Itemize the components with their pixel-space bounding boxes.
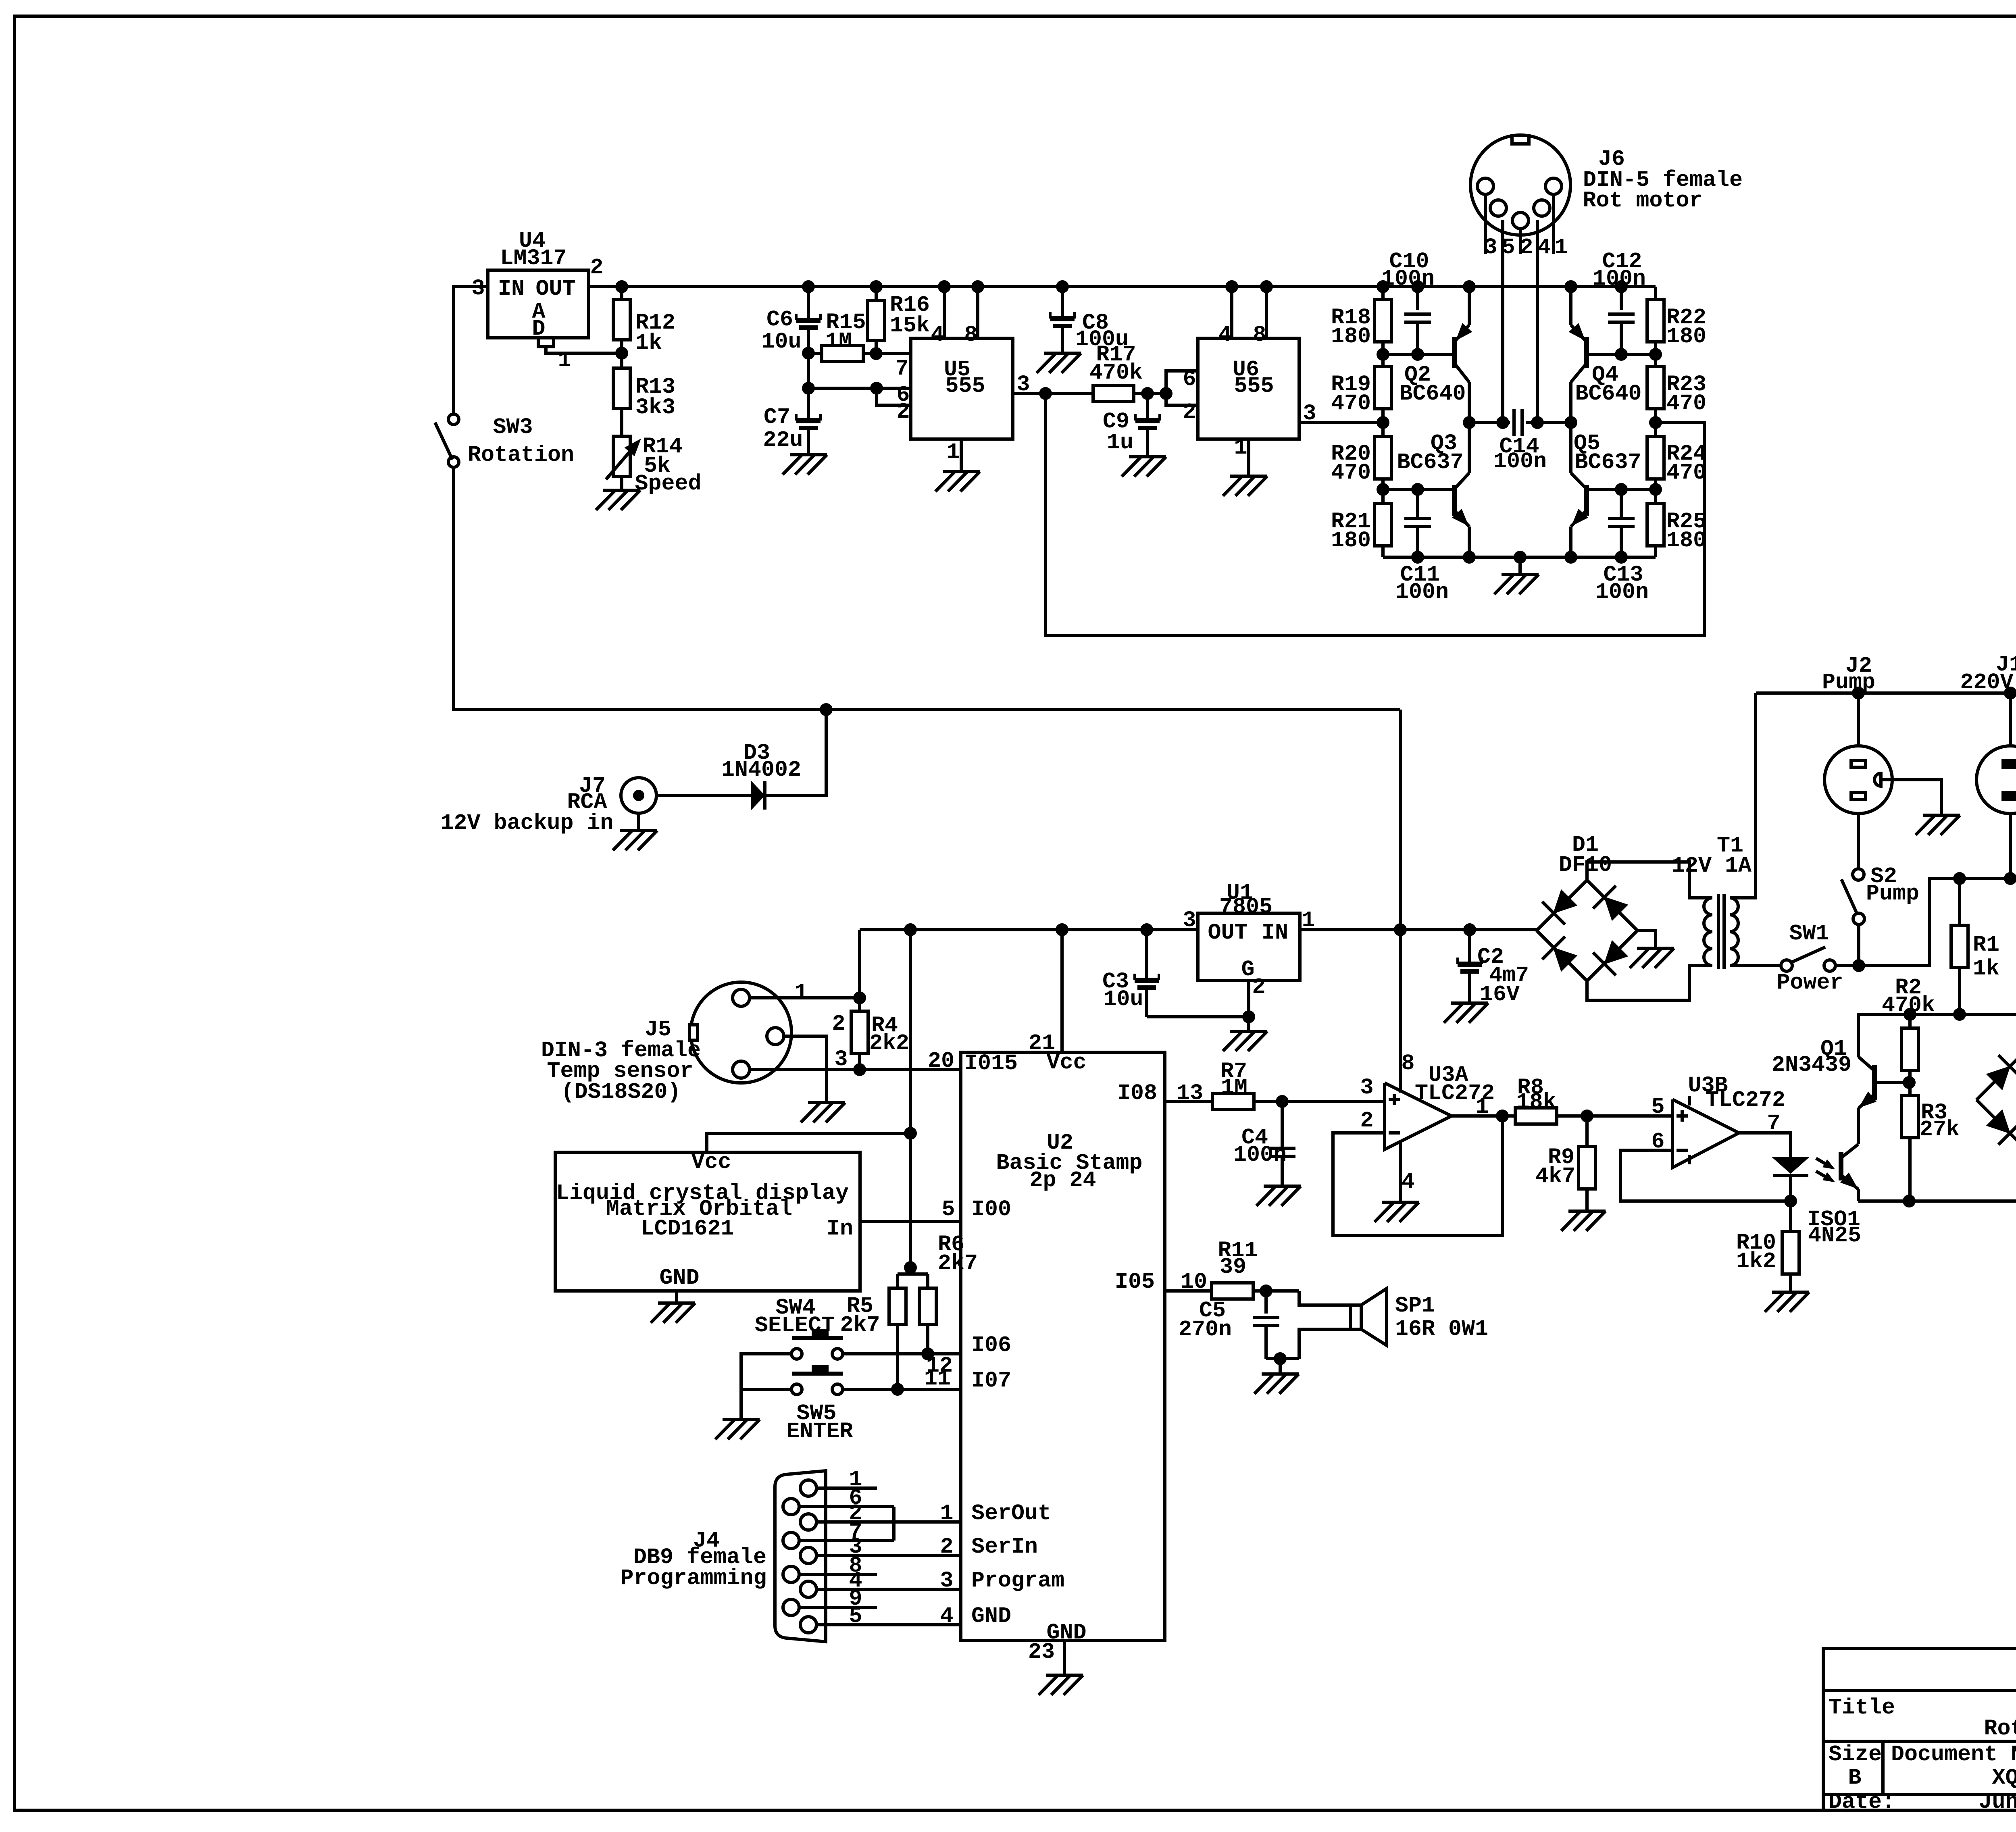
svg-text:2p 24: 2p 24: [1029, 1168, 1096, 1193]
svg-text:GND: GND: [659, 1265, 699, 1291]
node IN/U3 pin8 column: [1394, 923, 1407, 936]
wire U2 IO5 to R11: [1165, 1289, 1212, 1293]
svg-text:180: 180: [1331, 528, 1371, 553]
resistor R23 470: [1654, 354, 1657, 366]
U2 Vcc pin21 wire: [1060, 930, 1064, 1052]
J6 pin 1 stub: [1552, 194, 1555, 254]
svg-text:2: 2: [1252, 974, 1265, 1000]
U6 pin 8 wire: [1265, 287, 1268, 338]
svg-text:Speed: Speed: [635, 471, 701, 496]
J4 pin 4 wire Program: [816, 1588, 961, 1591]
connector J4 DB9 female Programming: [775, 1471, 826, 1642]
ground below H-bridge: [1502, 573, 1539, 576]
capacitor C9 1u: [1146, 393, 1149, 418]
resistor R4 2k2: [858, 998, 861, 1011]
U3A pin2 feedback loop: [1333, 1116, 1502, 1235]
U6 pin 4 wire: [1230, 287, 1233, 338]
svg-text:3: 3: [1360, 1075, 1373, 1100]
svg-text:4N25: 4N25: [1808, 1223, 1861, 1248]
node R8/R9: [1581, 1110, 1593, 1122]
capacitor C7 22u: [807, 388, 810, 418]
node R5/R6 top: [904, 1261, 917, 1274]
svg-text:27k: 27k: [1920, 1117, 1960, 1142]
node R19/R20 drive A: [1377, 416, 1389, 429]
svg-text:1M: 1M: [825, 329, 852, 354]
svg-text:June 16, 2003: June 16, 2003: [1979, 1789, 2016, 1815]
svg-text:(DS18S20): (DS18S20): [561, 1079, 681, 1105]
bridge rectifier D1 DF10: [1537, 880, 1637, 981]
J4 pin 9 stub: [799, 1606, 877, 1609]
wire SW4 to U2 IO6 pin12: [843, 1352, 961, 1355]
svg-text:3: 3: [1303, 401, 1316, 426]
svg-text:Vcc: Vcc: [691, 1149, 731, 1175]
wire Vcc rail end down to R4: [858, 930, 861, 998]
svg-text:4: 4: [931, 322, 944, 348]
ground at J5 pin2: [808, 1101, 845, 1104]
node A left motor terminal: [1463, 416, 1476, 429]
wire D2 bottom rail to ISO1 emitter: [1858, 1199, 2016, 1203]
connector J6 DIN-5 female Rot motor: [1470, 135, 1570, 235]
capacitor C6 10u: [807, 287, 810, 318]
node R12/R13/U4-ADJ: [615, 347, 628, 360]
J6 pin 3 stub: [1484, 194, 1487, 254]
node U3A output: [1496, 1110, 1509, 1122]
R5/R6 top bracket: [909, 1268, 912, 1274]
220V top rail: [1756, 691, 2016, 695]
resistor R19 470: [1381, 354, 1385, 366]
wire Q2 collector to node A: [1468, 382, 1471, 423]
svg-text:SW3: SW3: [493, 414, 533, 440]
capacitor C13 100n: [1620, 489, 1623, 518]
ground below R10: [1772, 1291, 1809, 1294]
wire SW4 left to ground column: [741, 1354, 791, 1420]
svg-text:1: 1: [794, 980, 808, 1005]
svg-text:8: 8: [1253, 322, 1266, 348]
wire Q2 emitter column: [1468, 287, 1471, 325]
capacitor C10 100n: [1416, 287, 1419, 310]
svg-text:3k3: 3k3: [635, 395, 675, 420]
J4 pin6-pin7 tie: [892, 1507, 896, 1541]
diode D3 1N4002: [656, 794, 751, 797]
ground below U5 pin1: [943, 470, 980, 473]
wire Q3 collector column: [1468, 423, 1471, 473]
ground below R9: [1568, 1210, 1606, 1213]
wire J5 pin3 to U2 IO15 pin20: [750, 1068, 961, 1071]
svg-text:GND: GND: [971, 1603, 1011, 1629]
transistor Q2 BC640: [1383, 353, 1452, 356]
svg-text:3: 3: [1484, 235, 1497, 260]
wire to U5 pin 7: [876, 352, 911, 355]
timer U6 555: [1198, 338, 1299, 439]
node C7/pin6 net: [802, 382, 815, 395]
svg-text:Power: Power: [1776, 970, 1843, 995]
ground below C8: [1044, 352, 1081, 355]
node LED cathode/R10: [1784, 1195, 1797, 1207]
U3A pin 4 wire to ground: [1399, 1141, 1402, 1202]
svg-text:470: 470: [1331, 460, 1371, 485]
wire C9 node to U6 pin6/2 tie: [1148, 392, 1166, 395]
node R1 bottom: [1953, 1008, 1966, 1021]
svg-text:23: 23: [1028, 1639, 1055, 1665]
node R23/R24 drive B: [1649, 416, 1662, 429]
node R18/R19/Q2 base: [1377, 348, 1389, 361]
svg-text:22u: 22u: [763, 427, 803, 453]
svg-text:180: 180: [1331, 324, 1371, 349]
ground below C7: [790, 453, 827, 456]
svg-text:3: 3: [940, 1568, 953, 1593]
svg-text:I07: I07: [971, 1368, 1011, 1393]
svg-text:15k: 15k: [890, 313, 930, 338]
resistor R15 1M: [808, 352, 822, 355]
svg-text:8: 8: [1401, 1051, 1414, 1076]
svg-text:Title: Title: [1829, 1695, 1895, 1720]
wire Vcc rail from U1 OUT: [860, 928, 1198, 931]
node U6 pin6/pin2 tie: [1160, 387, 1173, 400]
resistor R9 4k7: [1585, 1116, 1589, 1147]
capacitor C8 100u: [1061, 287, 1064, 316]
svg-text:180: 180: [1666, 324, 1706, 349]
svg-text:SerIn: SerIn: [971, 1534, 1038, 1559]
wire Q5 collector column: [1569, 423, 1572, 473]
node U5 pin6/pin2 tie: [870, 382, 883, 395]
svg-text:In: In: [827, 1216, 853, 1241]
wire C6 to C7: [807, 353, 810, 388]
resistor R17 470k: [1045, 392, 1093, 395]
U5 pin 3 output wire: [1013, 392, 1045, 395]
switch SW1 Power: [1781, 960, 1792, 971]
ground below C5: [1262, 1372, 1299, 1376]
transistor Q3 BC637: [1383, 488, 1452, 491]
U2 GND pin23 wire: [1063, 1640, 1066, 1675]
wire C7 node to U5 pin6: [808, 387, 911, 390]
title block: [1823, 1649, 2016, 1810]
resistor R24 470: [1654, 423, 1657, 437]
J4 pin 6 wire: [799, 1505, 894, 1508]
wire SW5 to U2 IO7 pin11: [843, 1388, 961, 1391]
wire Q4 emitter column: [1569, 287, 1572, 325]
capacitor C4 100n: [1281, 1101, 1284, 1148]
wire U4 pin1 to R12/R13 junction: [546, 347, 622, 353]
node C12/Q4 base: [1615, 348, 1628, 361]
U5 pin 8 wire: [976, 287, 979, 338]
wire ISO1 emitter down: [1857, 1189, 1860, 1201]
node R3 bottom: [1903, 1195, 1916, 1207]
svg-text:4: 4: [1537, 235, 1551, 260]
svg-text:470: 470: [1331, 391, 1371, 416]
J4 pin 1 stub: [816, 1486, 877, 1490]
svg-text:1: 1: [1554, 235, 1568, 260]
svg-text:Date:: Date:: [1829, 1789, 1895, 1815]
svg-text:10: 10: [1181, 1269, 1207, 1295]
node B right motor terminal: [1564, 416, 1577, 429]
wire J2 bottom to S2: [1857, 814, 1860, 869]
svg-text:BC637: BC637: [1574, 450, 1641, 475]
svg-text:I06: I06: [971, 1332, 1011, 1358]
svg-text:100n: 100n: [1593, 266, 1646, 291]
svg-text:470k: 470k: [1882, 993, 1935, 1018]
wire S2 to SW1 node: [1857, 924, 1860, 966]
node R2 top: [1904, 1008, 1916, 1021]
transistor Q1 2N3439: [1872, 1065, 1877, 1100]
node R4 top/J5 pin1: [853, 991, 866, 1004]
transformer T1 12V 1A: [1704, 898, 1712, 915]
svg-text:4: 4: [1401, 1169, 1414, 1195]
resistor R1 1k: [1958, 879, 1961, 925]
svg-text:470: 470: [1666, 460, 1706, 485]
svg-text:1M: 1M: [1221, 1075, 1248, 1100]
ground below U2: [1046, 1674, 1083, 1677]
capacitor C12 100n: [1620, 287, 1623, 310]
capacitor C14 100n: [1469, 421, 1510, 424]
wire SW1 to S2 junction: [1835, 964, 1859, 967]
svg-text:270n: 270n: [1179, 1317, 1232, 1342]
svg-text:Vcc: Vcc: [1046, 1050, 1086, 1075]
svg-text:I05: I05: [1115, 1269, 1155, 1295]
svg-text:4: 4: [1218, 322, 1231, 348]
regulator U4 LM317: [488, 270, 589, 338]
wire J1 bottom live: [2009, 814, 2012, 879]
svg-text:SP1: SP1: [1395, 1293, 1435, 1318]
svg-text:TLC272: TLC272: [1706, 1087, 1785, 1113]
svg-text:3: 3: [471, 276, 485, 301]
node Vcc/LCD branch: [904, 1127, 917, 1140]
svg-text:2N3439: 2N3439: [1772, 1052, 1851, 1078]
svg-text:Rotation: Rotation: [468, 442, 574, 468]
resistor R5 2k7: [889, 1288, 906, 1324]
wire R11 to C5/SP1: [1253, 1289, 1299, 1293]
ISO1 light arrows: [1823, 1160, 1834, 1169]
svg-text:I08: I08: [1117, 1080, 1157, 1106]
U5 pin6-pin2 bracket: [877, 388, 911, 405]
svg-text:555: 555: [945, 373, 985, 399]
ground below C9: [1129, 455, 1166, 458]
svg-text:2k7: 2k7: [840, 1312, 880, 1338]
wire rail to ground: [1518, 557, 1522, 575]
svg-text:2: 2: [1520, 235, 1533, 260]
wire SW3 to D3 junction: [454, 467, 826, 710]
svg-text:39: 39: [1220, 1254, 1246, 1280]
svg-text:XQ2FOD - PHOTOPRC.SCH: XQ2FOD - PHOTOPRC.SCH: [1992, 1765, 2016, 1790]
wire T1 primary top to 220V rail: [1730, 693, 1756, 898]
svg-text:LCD1621: LCD1621: [641, 1216, 734, 1241]
svg-text:Rot motor: Rot motor: [1583, 188, 1702, 213]
svg-text:SW1: SW1: [1789, 921, 1829, 946]
U5 pin 4 wire: [943, 287, 946, 338]
ground below SW4/SW5: [723, 1418, 760, 1421]
connector J2 Pump: [1852, 687, 1865, 699]
svg-text:100n: 100n: [1233, 1142, 1287, 1168]
resistor R12 1k: [620, 287, 623, 300]
node R7/C4: [1276, 1095, 1289, 1108]
ground below LCD: [658, 1301, 695, 1305]
svg-text:LM317: LM317: [500, 246, 566, 271]
wire Q3 emitter to bottom rail: [1468, 527, 1471, 557]
wire J5 pin1 to R4 top: [750, 996, 860, 999]
svg-text:SELECT: SELECT: [755, 1313, 835, 1338]
svg-text:3: 3: [1016, 372, 1030, 397]
resistor R25 180: [1654, 489, 1657, 504]
svg-text:2: 2: [1183, 400, 1196, 425]
svg-text:16R 0W1: 16R 0W1: [1395, 1316, 1488, 1342]
svg-text:BC640: BC640: [1575, 381, 1641, 406]
resistor R22 180: [1654, 287, 1657, 300]
resistor R13 3k3: [620, 353, 623, 368]
wire T1 primary bottom to SW1: [1730, 964, 1781, 967]
op-amp U3A TLC272: [1385, 1083, 1452, 1149]
svg-text:8: 8: [964, 322, 977, 348]
node U5 output: [1039, 387, 1052, 400]
svg-text:2: 2: [1360, 1108, 1373, 1133]
svg-text:I00: I00: [971, 1197, 1011, 1222]
svg-text:1: 1: [558, 348, 571, 373]
wire U4 pin3 to SW3: [454, 287, 488, 414]
pushbutton SW4 SELECT: [791, 1349, 802, 1359]
node R5 bottom: [891, 1383, 904, 1396]
svg-text:C6: C6: [766, 307, 793, 332]
svg-text:220V in: 220V in: [1960, 670, 2016, 695]
svg-text:11: 11: [924, 1366, 951, 1391]
svg-text:18k: 18k: [1516, 1089, 1556, 1115]
wire R7 to U3A pin3: [1254, 1100, 1385, 1103]
svg-text:100n: 100n: [1381, 266, 1435, 291]
svg-text:12V backup in: 12V backup in: [440, 810, 613, 836]
resistor R11 39: [1212, 1283, 1253, 1299]
svg-text:IN: IN: [498, 276, 525, 302]
wire Q4 collector to node B: [1569, 382, 1572, 423]
wire to switched-live rail: [1859, 879, 2016, 966]
svg-text:OUT: OUT: [1208, 920, 1248, 945]
svg-text:180: 180: [1666, 528, 1706, 553]
wire backup junction to U1 IN column: [826, 708, 1400, 711]
capacitor C11 100n: [1416, 489, 1419, 518]
resistor R18 180: [1381, 287, 1385, 300]
node R15/R16/U5 pin7: [870, 347, 883, 360]
node C13 top: [1615, 483, 1628, 496]
wire SW5 left to ground column: [741, 1388, 791, 1391]
node Vcc/C3: [1140, 923, 1153, 936]
pushbutton SW5 ENTER: [791, 1384, 802, 1395]
ground below U3A: [1382, 1201, 1419, 1204]
J6 pin 4 wire to node B: [1536, 220, 1539, 423]
svg-text:1k: 1k: [635, 330, 662, 356]
U6 pin 3 output wire to H-bridge left: [1299, 421, 1383, 424]
svg-text:6: 6: [1183, 366, 1196, 392]
svg-text:7: 7: [1767, 1111, 1780, 1136]
U3A pin 8 supply wire: [1399, 930, 1402, 1093]
svg-text:IN: IN: [1262, 920, 1288, 945]
node C10/Q2 base: [1411, 348, 1424, 361]
node R1 top: [1953, 872, 1966, 885]
resistor R16 15k: [875, 287, 878, 300]
bridge rectifier D2 DF10: [1976, 1049, 2016, 1151]
svg-text:1: 1: [1475, 1094, 1489, 1120]
svg-text:12V 1A: 12V 1A: [1672, 853, 1752, 879]
U3A output wire: [1452, 1114, 1515, 1118]
U5 pin 1 wire: [960, 439, 963, 472]
svg-text:5: 5: [941, 1197, 955, 1222]
connector J1 220V in: [2004, 687, 2016, 699]
svg-text:4k7: 4k7: [1535, 1164, 1575, 1189]
node R20/R21/Q3 base: [1377, 483, 1389, 496]
svg-text:13: 13: [1177, 1080, 1203, 1106]
resistor R7 1M: [1212, 1093, 1254, 1110]
svg-text:Pump: Pump: [1866, 881, 1919, 906]
wire backup junction down to U1 IN line: [1399, 710, 1402, 930]
svg-text:5: 5: [1651, 1094, 1664, 1120]
svg-text:1N4002: 1N4002: [721, 757, 801, 783]
node R6 bottom: [921, 1347, 934, 1360]
J4 pin 5 wire GND: [816, 1623, 961, 1626]
display LCD Matrix Orbital LCD1621: [555, 1152, 860, 1291]
node Q1 base/R2/R3: [1903, 1076, 1916, 1089]
capacitor C3 10u: [1145, 930, 1148, 978]
svg-text:2: 2: [832, 1011, 845, 1037]
wire Vcc column: [909, 930, 912, 1133]
wire U5 output feedback to H-bridge right (drive B): [1045, 393, 1704, 635]
resistor R6 2k7: [919, 1288, 936, 1324]
svg-text:1: 1: [1234, 435, 1247, 460]
resistor R2 470k: [1908, 1014, 1912, 1028]
svg-text:100n: 100n: [1493, 449, 1547, 474]
wire U1 IN line: [1300, 928, 1537, 931]
wire J7 to ground: [637, 813, 640, 831]
wire J5 pin2 to ground: [784, 1036, 827, 1103]
H-bridge bottom ground rail: [1383, 556, 1656, 559]
svg-text:I015: I015: [964, 1051, 1018, 1076]
node Vcc/pin21: [1056, 923, 1068, 936]
wire C5 bottom to speaker return: [1266, 1357, 1299, 1360]
svg-text:1: 1: [940, 1501, 953, 1526]
svg-text:555: 555: [1234, 373, 1274, 399]
switch S2 Pump: [1853, 869, 1864, 880]
transistor Q4 BC640: [1588, 353, 1656, 356]
svg-text:Size: Size: [1829, 1742, 1882, 1767]
svg-text:100n: 100n: [1595, 579, 1649, 605]
opto-isolator ISO1 4N25 LED: [1773, 1157, 1808, 1173]
speaker SP1 16R 0W1: [1299, 1291, 1350, 1305]
node R24/R25/Q5 base: [1649, 483, 1662, 496]
resistor R10 1k2: [1789, 1201, 1792, 1232]
regulator U1 7805: [1198, 913, 1300, 981]
switch SW3 Rotation: [448, 414, 459, 425]
node IN/C2: [1463, 923, 1476, 936]
svg-text:470: 470: [1666, 391, 1706, 416]
node C5/ground: [1274, 1352, 1287, 1365]
ground below R14: [603, 489, 640, 492]
svg-text:10u: 10u: [761, 329, 801, 354]
svg-text:C7: C7: [764, 404, 790, 430]
svg-text:1: 1: [946, 439, 960, 465]
svg-text:7: 7: [895, 356, 908, 381]
svg-text:10u: 10u: [1103, 987, 1143, 1012]
resistor R21 180: [1381, 489, 1385, 504]
node J1 live: [2004, 872, 2016, 885]
svg-text:2: 2: [940, 1534, 953, 1559]
node D3/backup junction: [820, 703, 833, 716]
U6 pin6-pin2 bracket: [1166, 371, 1198, 405]
U3B output pin7 wire: [1739, 1133, 1791, 1157]
wire D1 bottom AC to T1 secondary bottom: [1587, 966, 1712, 1000]
resistor R20 470: [1381, 423, 1385, 437]
wire Q5 emitter to bottom rail: [1569, 527, 1572, 557]
J4 pin 2 wire SerOut: [816, 1520, 961, 1524]
node C11 top: [1411, 483, 1424, 496]
node R22/R23/Q4 base: [1649, 348, 1662, 361]
svg-text:5: 5: [849, 1603, 862, 1629]
timer U5 555: [911, 338, 1013, 439]
capacitor C5 270n: [1264, 1291, 1268, 1314]
wire Vcc column to R5/R6: [909, 1133, 912, 1268]
